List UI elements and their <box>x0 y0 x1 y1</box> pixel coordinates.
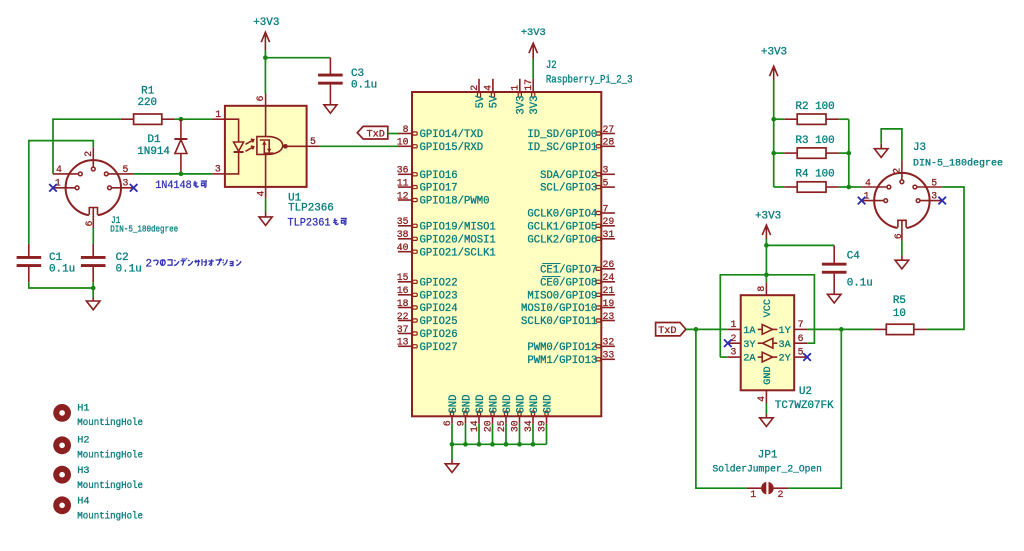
J2 pin 3 SDA/GPIO2 <box>540 165 615 182</box>
svg-text:3Y: 3Y <box>743 340 755 351</box>
svg-text:28: 28 <box>603 137 615 148</box>
svg-text:GPIO26: GPIO26 <box>420 329 458 341</box>
svg-text:36: 36 <box>397 165 409 176</box>
ground (C4) <box>827 294 841 303</box>
wire junction to C3 <box>265 57 330 59</box>
svg-text:16: 16 <box>397 285 409 296</box>
svg-text:8: 8 <box>756 286 767 292</box>
svg-text:2: 2 <box>146 259 153 271</box>
J2 pin 33 PWM1/GPIO13 <box>527 350 615 367</box>
J2 pin 36 GPIO16 <box>397 165 458 182</box>
J2 pin 10 GPIO15/RXD <box>397 137 483 154</box>
J2 bottom pin 6 GND <box>442 395 460 427</box>
svg-text:19: 19 <box>603 298 615 309</box>
wire C1 to ground junction <box>29 282 93 288</box>
node GND bus junction <box>504 442 509 447</box>
svg-text:4: 4 <box>483 85 494 91</box>
capacitor C3 <box>318 58 377 105</box>
svg-text:GPIO21/SCLK1: GPIO21/SCLK1 <box>420 247 496 259</box>
svg-text:2: 2 <box>83 151 94 157</box>
svg-text:VCC: VCC <box>763 299 774 317</box>
J2 pin 27 ID_SD/GPIO0 <box>527 124 615 141</box>
ground (J3 pin2) <box>874 144 888 158</box>
ground (J2) <box>445 444 459 472</box>
note TLP2361 alternative (blue) <box>288 217 347 229</box>
node GND bus junction <box>517 442 522 447</box>
wire J1 pin4 to R1 <box>53 119 121 174</box>
svg-text:GPIO17: GPIO17 <box>420 183 458 195</box>
svg-text:31: 31 <box>603 229 615 240</box>
svg-text:3: 3 <box>603 165 609 176</box>
J2 pin 32 PWM0/GPIO12 <box>527 337 615 354</box>
svg-text:17: 17 <box>523 79 534 91</box>
J2 top pin 4 5V <box>483 79 501 109</box>
node GND bus junction <box>463 442 468 447</box>
svg-text:3V3: 3V3 <box>529 96 541 115</box>
svg-text:3: 3 <box>730 347 736 358</box>
svg-text:22: 22 <box>397 311 409 322</box>
node D1-pin3 junction <box>179 172 184 177</box>
resistor R2 <box>774 101 849 124</box>
svg-text:+3V3: +3V3 <box>521 27 546 39</box>
node R3 left junction <box>771 151 776 156</box>
node R4 right junction <box>846 185 851 190</box>
J2 pin 16 GPIO23 <box>397 285 458 302</box>
svg-text:ID_SC/GPIO1: ID_SC/GPIO1 <box>527 142 597 154</box>
mounting hole H3 <box>53 466 143 492</box>
wire J3 pin6 to ground <box>901 241 903 256</box>
svg-text:H1: H1 <box>77 404 89 415</box>
optocoupler U1 TLP2366 <box>212 94 334 215</box>
wire U2 VCC top rail <box>720 275 814 357</box>
power +3V3 (U1 supply) <box>253 17 279 50</box>
label TxD (to J2 pin8) <box>357 126 398 140</box>
J2 top pin 2 5V <box>469 79 487 109</box>
svg-text:R1: R1 <box>141 85 155 97</box>
wire rail to U2 pin8 <box>765 275 767 283</box>
svg-text:13: 13 <box>397 337 409 348</box>
J2 top pin 17 3V3 <box>523 79 541 115</box>
J2 pin 15 GPIO22 <box>397 272 458 289</box>
ground (U1 pin4) <box>259 199 272 226</box>
connector J1 DIN-5 <box>53 147 178 234</box>
svg-text:R4 100: R4 100 <box>796 169 835 181</box>
J2 pin 31 GCLK2/GPIO6 <box>527 229 615 246</box>
node C1-C2 ground junction <box>91 286 96 291</box>
buffer U2 TC7WZ07FK <box>728 282 834 412</box>
wire rail to U2 pin3 <box>720 356 728 358</box>
svg-text:6: 6 <box>255 96 266 102</box>
capacitor C1 <box>17 244 76 282</box>
svg-text:JP1: JP1 <box>758 449 778 461</box>
svg-text:24: 24 <box>603 272 615 283</box>
svg-text:2: 2 <box>469 85 480 91</box>
svg-text:GPIO19/MISO1: GPIO19/MISO1 <box>420 221 496 233</box>
J2 pin 24 CE0/GPIO8 <box>540 272 615 289</box>
label TxD (from J2) <box>656 323 686 337</box>
svg-text:U2: U2 <box>799 386 812 398</box>
wire J3 pin2 to ground <box>881 129 902 160</box>
svg-text:H3: H3 <box>77 466 89 477</box>
svg-text:GPIO25: GPIO25 <box>420 316 458 328</box>
svg-text:7: 7 <box>603 203 609 214</box>
svg-text:GPIO23: GPIO23 <box>420 290 458 302</box>
svg-text:TLP2366: TLP2366 <box>288 202 334 214</box>
J2 bottom pin 34 GND <box>523 395 541 433</box>
no-connect J3 pin1 <box>858 197 866 205</box>
J2 bottom pin 14 GND <box>469 395 487 433</box>
svg-text:D1: D1 <box>147 134 161 146</box>
svg-text:5: 5 <box>310 136 316 147</box>
svg-text:1: 1 <box>215 109 221 120</box>
svg-text:DIN-5_180degree: DIN-5_180degree <box>110 223 178 234</box>
node U2 pin8 rail junction <box>764 272 769 277</box>
node GND bus junction <box>477 442 482 447</box>
svg-text:TLP2361: TLP2361 <box>288 217 331 229</box>
wire C2 to ground <box>92 282 94 288</box>
svg-text:1A: 1A <box>743 326 756 337</box>
power +3V3 (J2 pin17) <box>521 27 546 59</box>
J2 top pin 1 3V3 <box>510 79 528 115</box>
svg-text:SDA/GPIO2: SDA/GPIO2 <box>540 170 597 182</box>
no-connect U2 pin5 <box>803 353 811 361</box>
svg-text:MountingHole: MountingHole <box>77 449 143 461</box>
svg-text:2: 2 <box>891 168 902 174</box>
wire TxD to U2 pin1 <box>686 328 728 330</box>
svg-text:1: 1 <box>55 178 61 189</box>
resistor R5 <box>873 295 926 335</box>
svg-text:11: 11 <box>397 178 409 189</box>
svg-text:1N4148: 1N4148 <box>155 180 192 192</box>
svg-text:TC7WZ07FK: TC7WZ07FK <box>775 400 834 412</box>
J2 pin 13 GPIO27 <box>397 337 458 354</box>
resistor R4 <box>774 169 849 193</box>
resistor R1 <box>121 85 175 124</box>
svg-text:ID_SD/GPIO0: ID_SD/GPIO0 <box>527 129 597 141</box>
svg-text:SCLK0/GPIO11: SCLK0/GPIO11 <box>521 316 597 328</box>
svg-text:10: 10 <box>397 137 409 148</box>
svg-text:26: 26 <box>603 259 615 270</box>
svg-text:GPIO27: GPIO27 <box>420 342 458 354</box>
diode D1 1N914 <box>137 119 187 174</box>
svg-text:GPIO18/PWM0: GPIO18/PWM0 <box>420 196 490 208</box>
mounting hole H4 <box>53 496 143 522</box>
svg-text:+3V3: +3V3 <box>761 46 787 58</box>
svg-text:GPIO20/MOSI1: GPIO20/MOSI1 <box>420 234 496 246</box>
svg-text:GPIO14/TXD: GPIO14/TXD <box>420 129 484 141</box>
svg-text:GND: GND <box>475 395 487 414</box>
svg-text:8: 8 <box>403 124 409 135</box>
wire U1 pin5 to J2 pin10 <box>320 145 399 147</box>
svg-text:2Y: 2Y <box>778 354 790 365</box>
svg-text:GPIO15/RXD: GPIO15/RXD <box>420 142 484 154</box>
J2 pin 22 GPIO25 <box>397 311 458 328</box>
svg-text:R2 100: R2 100 <box>796 101 835 113</box>
svg-text:0.1u: 0.1u <box>847 278 873 290</box>
svg-text:H4: H4 <box>77 497 89 508</box>
wire J1 pin2 loop to C1 <box>29 141 94 244</box>
svg-text:MOSI0/GPIO10: MOSI0/GPIO10 <box>521 303 597 315</box>
ground (U2 pin4) <box>760 403 774 427</box>
svg-text:SolderJumper_2_Open: SolderJumper_2_Open <box>713 464 822 476</box>
power +3V3 (pullup resistors) <box>761 46 787 80</box>
svg-text:34: 34 <box>523 420 534 432</box>
svg-text:37: 37 <box>397 324 409 335</box>
J2 pin 8 GPIO14/TXD <box>398 124 483 141</box>
svg-text:H2: H2 <box>77 436 89 447</box>
svg-text:3A: 3A <box>778 340 791 351</box>
svg-text:5: 5 <box>122 164 128 175</box>
svg-text:32: 32 <box>603 337 615 348</box>
svg-text:TxD: TxD <box>658 326 676 337</box>
svg-text:SCL/GPIO3: SCL/GPIO3 <box>540 183 597 195</box>
J2 bottom pin 25 GND <box>496 395 514 433</box>
svg-text:J2: J2 <box>546 60 557 72</box>
wire R1 to U1 pin1 <box>175 118 213 120</box>
svg-text:0.1u: 0.1u <box>49 264 75 276</box>
J2 pin 37 GPIO26 <box>397 324 458 341</box>
svg-text:1: 1 <box>750 489 756 500</box>
wire GND bus under J2 <box>452 424 547 445</box>
node 3V3-C3 junction <box>263 55 268 60</box>
J2 pin 23 SCLK0/GPIO11 <box>521 311 615 328</box>
svg-text:23: 23 <box>603 311 615 322</box>
svg-text:GND: GND <box>502 395 514 414</box>
svg-text:J3: J3 <box>913 142 926 154</box>
svg-text:GND: GND <box>461 395 473 414</box>
svg-text:4: 4 <box>865 177 871 188</box>
svg-text:39: 39 <box>536 420 547 432</box>
node TxD junction <box>694 327 699 332</box>
svg-text:MISO0/GPIO9: MISO0/GPIO9 <box>527 290 597 302</box>
wire +3V3 to U2 pin8 rail <box>765 239 767 275</box>
svg-text:+3V3: +3V3 <box>253 17 279 29</box>
svg-text:5V: 5V <box>475 95 487 108</box>
svg-text:5: 5 <box>931 177 937 188</box>
svg-text:33: 33 <box>603 350 615 361</box>
svg-text:30: 30 <box>509 420 520 432</box>
svg-text:R3 100: R3 100 <box>796 135 835 147</box>
svg-text:220: 220 <box>137 97 157 109</box>
svg-text:3: 3 <box>215 164 221 175</box>
svg-text:5V: 5V <box>489 95 501 108</box>
svg-text:1Y: 1Y <box>778 326 790 337</box>
ground (C1 C2) <box>86 288 100 310</box>
svg-text:GPIO24: GPIO24 <box>420 303 458 315</box>
svg-text:35: 35 <box>397 216 409 227</box>
connector J2 Raspberry_Pi_2_3 <box>412 60 633 417</box>
svg-text:Raspberry_Pi_2_3: Raspberry_Pi_2_3 <box>546 75 633 87</box>
svg-text:GCLK1/GPIO5: GCLK1/GPIO5 <box>527 221 597 233</box>
node pin7 JP1 junction <box>839 327 844 332</box>
svg-text:1: 1 <box>730 319 736 330</box>
svg-text:PWM1/GPIO13: PWM1/GPIO13 <box>527 355 597 367</box>
wire TxD branch down to JP1 <box>696 329 747 488</box>
node C4 branch junction <box>764 243 769 248</box>
J2 pin 28 ID_SC/GPIO1 <box>527 137 615 154</box>
wire J1 pin5 to U1 pin3 <box>134 173 213 175</box>
svg-text:0.1u: 0.1u <box>351 79 377 91</box>
capacitor C2 <box>81 244 142 282</box>
svg-text:1: 1 <box>510 85 521 91</box>
node GND bus junction <box>450 442 455 447</box>
svg-text:C2: C2 <box>116 252 129 264</box>
no-connect J3 pin3 <box>938 197 946 205</box>
ground (J3 pin6) <box>895 255 909 269</box>
wire +3V3 to J2 pin17 <box>532 59 534 79</box>
J2 pin 29 GCLK1/GPIO5 <box>527 216 615 233</box>
svg-text:3: 3 <box>122 178 128 189</box>
wire U2 pin7 to R5 <box>807 328 873 330</box>
svg-text:12: 12 <box>397 190 409 201</box>
J2 pin 5 SCL/GPIO3 <box>540 178 615 195</box>
svg-text:GND: GND <box>515 395 527 414</box>
svg-text:27: 27 <box>603 124 615 135</box>
J2 bottom pin 9 GND <box>455 395 473 427</box>
wire junction to C4 <box>766 244 834 246</box>
svg-text:1: 1 <box>864 191 870 202</box>
svg-text:C4: C4 <box>847 250 860 262</box>
svg-text:TxD: TxD <box>367 129 385 140</box>
J2 bottom pin 39 GND <box>536 395 554 433</box>
solder jumper JP1 <box>713 449 822 500</box>
svg-text:2A: 2A <box>743 354 756 365</box>
svg-text:2: 2 <box>777 489 783 500</box>
wire right bus R2-R4 <box>848 119 850 187</box>
svg-text:5: 5 <box>603 178 609 189</box>
svg-text:1N914: 1N914 <box>137 146 170 158</box>
svg-text:C1: C1 <box>49 252 63 264</box>
J2 pin 11 GPIO17 <box>397 178 458 195</box>
connector J3 DIN-5 <box>861 142 1003 241</box>
svg-text:7: 7 <box>798 319 804 330</box>
ground (C3) <box>324 105 337 113</box>
svg-text:MountingHole: MountingHole <box>77 417 143 429</box>
wire +3V3 bus down left of R2 R3 R4 <box>773 80 775 187</box>
no-connect J1 pin1 <box>49 184 57 192</box>
svg-text:0.1u: 0.1u <box>116 264 142 276</box>
J2 pin 12 GPIO18/PWM0 <box>397 190 490 207</box>
svg-text:3: 3 <box>931 191 937 202</box>
svg-text:29: 29 <box>603 216 615 227</box>
J2 pin 18 GPIO24 <box>397 298 458 315</box>
svg-text:2: 2 <box>730 333 736 344</box>
svg-text:CE1/GPIO7: CE1/GPIO7 <box>540 264 597 276</box>
J2 bottom pin 20 GND <box>482 395 500 433</box>
mounting hole H2 <box>53 436 143 462</box>
svg-text:4: 4 <box>756 396 767 402</box>
J2 pin 40 GPIO21/SCLK1 <box>397 242 496 259</box>
svg-text:+3V3: +3V3 <box>755 210 781 222</box>
svg-text:GCLK0/GPIO4: GCLK0/GPIO4 <box>527 209 597 221</box>
svg-text:3V3: 3V3 <box>516 96 528 115</box>
svg-text:38: 38 <box>397 229 409 240</box>
capacitor C4 <box>822 245 873 294</box>
node R3 right junction <box>846 151 851 156</box>
svg-text:6: 6 <box>893 233 904 239</box>
wire R4 to J3 pin4 <box>849 186 862 188</box>
power +3V3 (U2 supply) <box>755 210 781 239</box>
svg-text:21: 21 <box>603 285 615 296</box>
node GND bus junction <box>531 442 536 447</box>
mounting hole H1 <box>53 404 143 430</box>
wire J3 pin5 down to R5 <box>927 187 964 329</box>
svg-text:GND: GND <box>763 366 774 384</box>
svg-text:C3: C3 <box>351 68 364 80</box>
resistor R3 <box>774 135 849 158</box>
node R2 left junction <box>771 117 776 122</box>
no-connect J1 pin3 <box>130 184 138 192</box>
svg-text:GND: GND <box>542 395 554 414</box>
svg-text:R5: R5 <box>893 295 906 307</box>
svg-text:DIN-5_180degree: DIN-5_180degree <box>913 157 1003 169</box>
J2 pin 21 MISO0/GPIO9 <box>527 285 615 302</box>
svg-text:CE0/GPIO8: CE0/GPIO8 <box>540 277 597 289</box>
no-connect U2 pin2 <box>724 339 732 347</box>
svg-text:GND: GND <box>529 395 541 414</box>
svg-text:5: 5 <box>798 347 804 358</box>
note 1N4148 alternative (blue) <box>155 180 207 192</box>
J2 pin 35 GPIO19/MISO1 <box>397 216 496 233</box>
svg-text:4: 4 <box>56 164 62 175</box>
svg-text:6: 6 <box>84 221 95 227</box>
svg-text:15: 15 <box>397 272 409 283</box>
note capacitors optional (blue) <box>146 258 242 271</box>
svg-text:MountingHole: MountingHole <box>77 480 143 492</box>
J2 pin 26 CE1/GPIO7 <box>540 259 615 276</box>
svg-text:18: 18 <box>397 298 409 309</box>
node R1-D1 junction <box>179 117 184 122</box>
svg-text:10: 10 <box>893 308 906 320</box>
svg-text:MountingHole: MountingHole <box>77 511 143 523</box>
svg-text:GCLK2/GPIO6: GCLK2/GPIO6 <box>527 234 597 246</box>
svg-text:40: 40 <box>397 242 409 253</box>
J2 pin 19 MOSI0/GPIO10 <box>521 298 615 315</box>
svg-text:GND: GND <box>448 395 460 414</box>
wire JP1 right up to pin7 net <box>788 329 841 488</box>
svg-text:GND: GND <box>488 395 500 414</box>
svg-text:GPIO16: GPIO16 <box>420 170 458 182</box>
svg-text:6: 6 <box>798 333 804 344</box>
J2 pin 7 GCLK0/GPIO4 <box>527 203 615 220</box>
node GND bus junction <box>490 442 495 447</box>
wire J1 pin6 to C2 <box>92 228 94 244</box>
wire +3V3 to U1 pin6 <box>264 50 266 94</box>
J2 pin 38 GPIO20/MOSI1 <box>397 229 496 246</box>
J2 bottom pin 30 GND <box>509 395 527 433</box>
svg-text:4: 4 <box>255 191 266 197</box>
svg-text:GPIO22: GPIO22 <box>420 277 458 289</box>
svg-text:PWM0/GPIO12: PWM0/GPIO12 <box>527 342 597 354</box>
